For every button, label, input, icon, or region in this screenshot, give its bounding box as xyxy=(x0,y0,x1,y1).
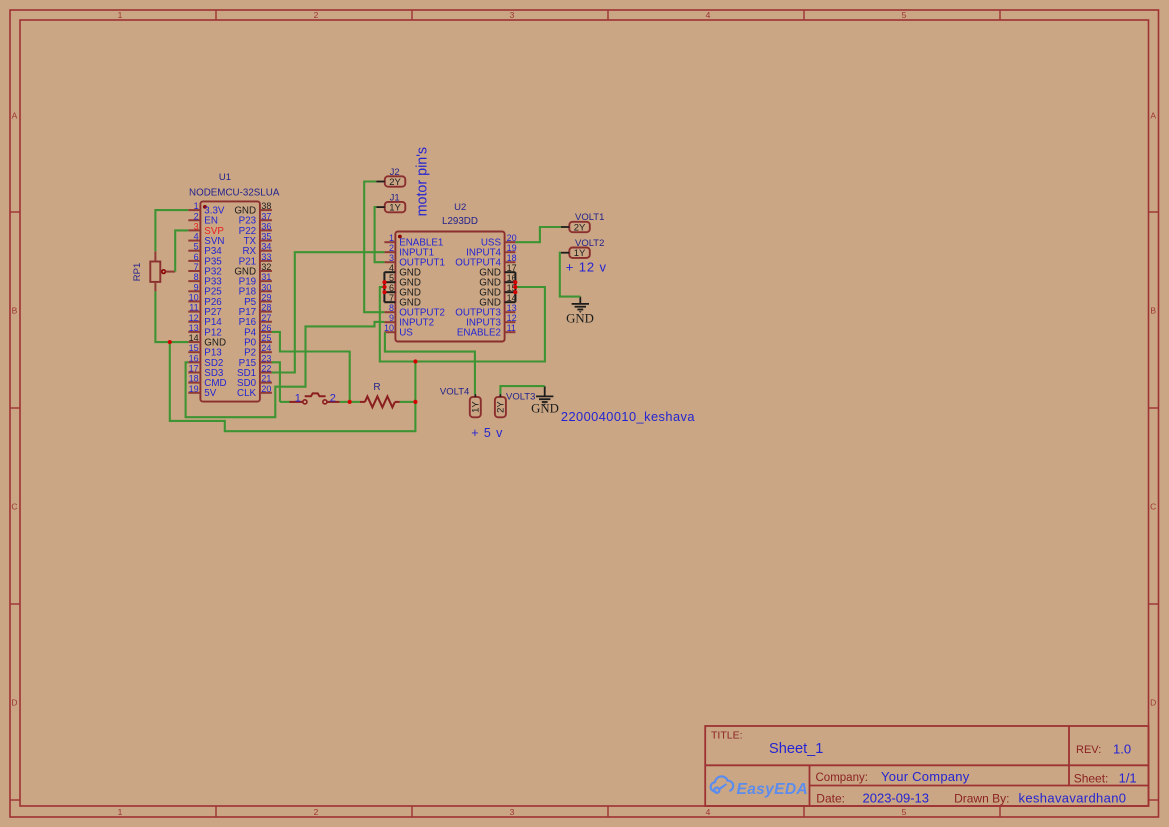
svg-text:2Y: 2Y xyxy=(574,222,586,233)
svg-text:8: 8 xyxy=(389,303,394,313)
svg-text:7: 7 xyxy=(194,262,199,272)
svg-text:A: A xyxy=(12,111,18,121)
svg-text:J1: J1 xyxy=(390,193,400,204)
svg-text:5V: 5V xyxy=(204,388,216,399)
svg-text:A: A xyxy=(1150,111,1156,121)
svg-text:1: 1 xyxy=(194,201,199,211)
svg-text:11: 11 xyxy=(189,303,198,313)
svg-text:20: 20 xyxy=(261,384,271,394)
svg-text:16: 16 xyxy=(189,353,199,363)
svg-text:US: US xyxy=(399,328,413,339)
svg-text:35: 35 xyxy=(261,232,271,242)
svg-text:1: 1 xyxy=(118,807,123,817)
svg-text:EasyEDA: EasyEDA xyxy=(737,781,808,798)
svg-text:VOLT4: VOLT4 xyxy=(440,387,469,398)
svg-text:13: 13 xyxy=(189,323,199,333)
svg-text:6: 6 xyxy=(389,283,394,293)
svg-text:TITLE:: TITLE: xyxy=(711,730,743,742)
svg-text:32: 32 xyxy=(261,262,271,272)
svg-text:B: B xyxy=(1150,306,1156,316)
svg-text:2200040010_keshava: 2200040010_keshava xyxy=(561,409,695,424)
svg-text:1Y: 1Y xyxy=(389,203,401,214)
svg-text:19: 19 xyxy=(507,243,517,253)
svg-text:34: 34 xyxy=(261,242,271,252)
svg-text:keshavavardhan0: keshavavardhan0 xyxy=(1019,791,1127,806)
svg-text:L293DD: L293DD xyxy=(442,216,478,227)
svg-text:NODEMCU-32SLUA: NODEMCU-32SLUA xyxy=(189,187,280,198)
svg-text:15: 15 xyxy=(189,343,199,353)
svg-text:9: 9 xyxy=(389,313,394,323)
svg-text:GND: GND xyxy=(566,312,594,326)
svg-text:18: 18 xyxy=(507,253,517,263)
svg-text:4: 4 xyxy=(194,232,199,242)
svg-text:C: C xyxy=(1150,502,1156,512)
svg-text:5: 5 xyxy=(902,807,907,817)
svg-text:D: D xyxy=(1150,698,1156,708)
svg-text:ENABLE2: ENABLE2 xyxy=(457,328,501,339)
svg-text:12: 12 xyxy=(189,313,199,323)
svg-text:9: 9 xyxy=(194,282,199,292)
svg-text:+ 5 v: + 5 v xyxy=(471,426,503,440)
svg-text:2: 2 xyxy=(330,393,336,405)
svg-text:10: 10 xyxy=(384,323,394,333)
svg-text:U1: U1 xyxy=(219,172,231,183)
svg-text:REV:: REV: xyxy=(1076,744,1101,756)
svg-text:C: C xyxy=(11,502,17,512)
svg-text:29: 29 xyxy=(261,292,271,302)
svg-text:23: 23 xyxy=(261,353,271,363)
svg-text:21: 21 xyxy=(261,374,271,384)
svg-text:1: 1 xyxy=(118,10,123,20)
svg-text:VOLT1: VOLT1 xyxy=(575,212,604,223)
svg-text:Company:: Company: xyxy=(816,772,868,784)
svg-text:Your Company: Your Company xyxy=(881,769,970,784)
svg-text:4: 4 xyxy=(389,263,394,273)
svg-text:Sheet_1: Sheet_1 xyxy=(769,741,823,757)
svg-text:24: 24 xyxy=(261,343,271,353)
svg-text:Date:: Date: xyxy=(816,792,845,806)
svg-text:6: 6 xyxy=(194,252,199,262)
svg-text:22: 22 xyxy=(261,364,271,374)
svg-text:13: 13 xyxy=(507,303,517,313)
svg-text:RP1: RP1 xyxy=(132,263,143,281)
svg-text:VOLT2: VOLT2 xyxy=(575,238,604,249)
svg-text:motor pin's: motor pin's xyxy=(414,147,430,216)
svg-text:27: 27 xyxy=(261,313,271,323)
svg-text:30: 30 xyxy=(261,282,271,292)
svg-text:37: 37 xyxy=(261,211,271,221)
svg-text:36: 36 xyxy=(261,221,271,231)
svg-text:3: 3 xyxy=(510,807,515,817)
svg-text:31: 31 xyxy=(261,272,271,282)
svg-text:1/1: 1/1 xyxy=(1119,770,1137,785)
svg-text:Sheet:: Sheet: xyxy=(1074,771,1109,785)
svg-text:B: B xyxy=(12,306,18,316)
svg-text:7: 7 xyxy=(389,293,394,303)
svg-text:1: 1 xyxy=(389,233,394,243)
svg-text:U2: U2 xyxy=(454,202,466,213)
svg-text:J2: J2 xyxy=(390,167,400,178)
svg-text:1Y: 1Y xyxy=(471,401,482,413)
svg-text:17: 17 xyxy=(507,263,517,273)
svg-text:17: 17 xyxy=(189,364,199,374)
svg-text:20: 20 xyxy=(507,233,517,243)
svg-text:1: 1 xyxy=(295,393,301,405)
svg-text:3: 3 xyxy=(194,221,199,231)
svg-text:2Y: 2Y xyxy=(389,177,401,188)
svg-text:25: 25 xyxy=(261,333,271,343)
svg-text:D: D xyxy=(11,698,17,708)
svg-text:8: 8 xyxy=(194,272,199,282)
svg-text:4: 4 xyxy=(706,807,711,817)
svg-text:3: 3 xyxy=(510,10,515,20)
svg-text:2: 2 xyxy=(194,211,199,221)
svg-text:CLK: CLK xyxy=(237,388,257,399)
svg-text:2: 2 xyxy=(389,243,394,253)
svg-text:11: 11 xyxy=(507,323,516,333)
svg-text:+ 12 v: + 12 v xyxy=(566,260,607,275)
svg-text:5: 5 xyxy=(194,242,199,252)
svg-text:5: 5 xyxy=(902,10,907,20)
svg-text:18: 18 xyxy=(189,374,199,384)
svg-text:3: 3 xyxy=(389,253,394,263)
svg-text:Drawn By:: Drawn By: xyxy=(954,792,1009,806)
svg-text:38: 38 xyxy=(261,201,271,211)
svg-text:12: 12 xyxy=(507,313,517,323)
svg-text:R: R xyxy=(373,382,380,393)
svg-text:10: 10 xyxy=(189,292,199,302)
svg-text:28: 28 xyxy=(261,303,271,313)
svg-text:26: 26 xyxy=(261,323,271,333)
svg-text:2: 2 xyxy=(314,807,319,817)
svg-text:19: 19 xyxy=(189,384,199,394)
svg-text:4: 4 xyxy=(706,10,711,20)
svg-text:GND: GND xyxy=(531,401,559,415)
svg-text:14: 14 xyxy=(189,333,199,343)
svg-text:2023-09-13: 2023-09-13 xyxy=(863,791,930,806)
svg-text:1.0: 1.0 xyxy=(1113,741,1131,756)
svg-text:1Y: 1Y xyxy=(574,248,586,259)
svg-text:5: 5 xyxy=(389,273,394,283)
svg-text:2: 2 xyxy=(314,10,319,20)
svg-text:33: 33 xyxy=(261,252,271,262)
